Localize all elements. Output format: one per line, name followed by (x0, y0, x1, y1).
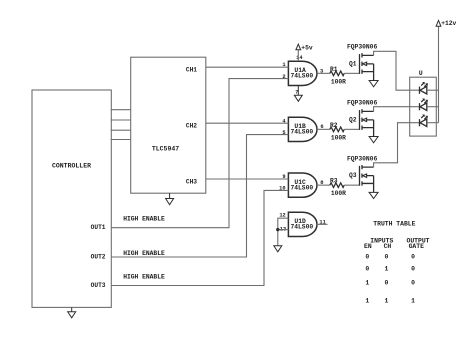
wire Q3 drain to LED row 3 (374, 123, 420, 168)
U1A pin14 stem wire (297, 50, 299, 61)
LED D3 (420, 115, 428, 127)
controller block (32, 90, 111, 307)
svg-text:TRUTH TABLE: TRUTH TABLE (373, 221, 415, 228)
svg-text:CH1: CH1 (186, 67, 197, 74)
svg-text:74LS00: 74LS00 (290, 224, 313, 231)
svg-text:1: 1 (365, 280, 369, 287)
svg-text:0: 0 (384, 254, 388, 261)
U1D output stub wire (317, 223, 328, 225)
svg-text:14: 14 (296, 55, 303, 61)
svg-text:R3: R3 (330, 178, 338, 185)
svg-text:FQP30N06: FQP30N06 (347, 100, 377, 107)
wire bus line 3 (111, 129, 131, 131)
svg-text:1: 1 (411, 297, 415, 304)
transistor Q1 FQP30N06 (360, 53, 374, 80)
transistor Q2 FQP30N06 (360, 109, 374, 136)
svg-text:0: 0 (411, 266, 415, 273)
wire bus line 1 (111, 109, 131, 111)
ground controller (68, 307, 76, 317)
svg-text:HIGH ENABLE: HIGH ENABLE (123, 216, 165, 223)
LED module U block (410, 77, 437, 136)
svg-text:OUT3: OUT3 (91, 282, 106, 289)
+5v supply arrow (296, 44, 301, 50)
wire CH2 to U1B pin4 (206, 122, 289, 124)
wire OUT3 to U1C pin10 (111, 190, 288, 285)
svg-text:R1: R1 (330, 66, 338, 73)
svg-text:0: 0 (411, 254, 415, 261)
nand gate U1C body (288, 173, 317, 197)
svg-text:HIGH ENABLE: HIGH ENABLE (123, 250, 165, 257)
svg-text:0: 0 (384, 280, 388, 287)
svg-text:R2: R2 (330, 122, 338, 129)
wire OUT2 to U1B pin5 (111, 135, 288, 257)
wire gate out to R3 (317, 184, 330, 186)
svg-text:Q2: Q2 (349, 116, 357, 123)
svg-text:CH3: CH3 (186, 178, 197, 185)
svg-text:+12v: +12v (441, 20, 456, 27)
wire R3 to Q3 gate (344, 184, 359, 186)
wire gate out to R1 (317, 72, 330, 74)
wire LED D3 anode to +12v rail (427, 122, 439, 124)
U1D junction dot (276, 228, 279, 231)
svg-text:5: 5 (282, 130, 285, 136)
svg-text:Q3: Q3 (349, 172, 357, 179)
wire CH3 to U1C pin9 (206, 178, 289, 180)
nand gate U1B body (288, 117, 317, 141)
wire R2 to Q2 gate (344, 128, 359, 130)
svg-text:OUT1: OUT1 (91, 224, 106, 231)
wire OUT1 to U1A pin2 (111, 79, 288, 228)
svg-text:1: 1 (384, 266, 388, 273)
transistor Q3 FQP30N06 (360, 165, 374, 192)
svg-text:0: 0 (411, 280, 415, 287)
svg-text:74LS00: 74LS00 (290, 129, 313, 136)
svg-text:100R: 100R (331, 134, 346, 141)
ground U1D inputs (274, 246, 282, 252)
svg-text:74LS00: 74LS00 (290, 73, 313, 80)
wire R1 to Q1 gate (344, 72, 359, 74)
svg-text:OUT2: OUT2 (91, 254, 106, 261)
resistor R3 (330, 183, 344, 188)
nand gate U1D body (288, 212, 317, 236)
svg-text:0: 0 (365, 266, 369, 273)
LED D1 (420, 82, 428, 94)
svg-text:FQP30N06: FQP30N06 (347, 44, 377, 51)
svg-text:100R: 100R (331, 78, 346, 85)
U1D input stubs and gnd wire (278, 218, 289, 246)
ground Q3 source (369, 192, 378, 198)
ground Q2 source (369, 137, 378, 143)
TLC5947 U2 block (131, 57, 206, 193)
ground Q1 source (369, 81, 378, 87)
wire Q1 drain to LED row 1 (374, 51, 420, 90)
svg-text:TLC5947: TLC5947 (152, 146, 179, 153)
svg-text:1: 1 (365, 297, 369, 304)
wire Q2 drain to LED row 2 (374, 107, 420, 112)
wire bus line 2 (111, 119, 131, 121)
wire bus line 4 (111, 139, 131, 141)
resistor R1 (330, 71, 344, 76)
svg-text:U: U (419, 70, 423, 77)
wire gate out to R2 (317, 128, 330, 130)
svg-text:100R: 100R (331, 190, 346, 197)
wire LED D2 anode to +12v rail (427, 106, 439, 108)
svg-text:2: 2 (282, 74, 285, 80)
nand gate U1A body (288, 61, 317, 85)
svg-text:FQP30N06: FQP30N06 (347, 155, 377, 162)
wire LED D1 anode to +12v rail (427, 89, 439, 91)
wire CH1 to U1A pin1 (206, 66, 289, 68)
svg-text:+5v: +5v (301, 44, 313, 51)
wire +12v rail (438, 26, 440, 123)
ground TLC5947 (166, 193, 174, 205)
svg-text:HIGH ENABLE: HIGH ENABLE (123, 274, 165, 281)
svg-text:Q1: Q1 (349, 60, 357, 67)
resistor R2 (330, 127, 344, 132)
svg-text:12: 12 (279, 213, 285, 219)
svg-text:CH: CH (384, 243, 392, 250)
+12v supply arrow (436, 20, 441, 26)
svg-text:0: 0 (365, 254, 369, 261)
svg-text:GATE: GATE (409, 243, 425, 250)
svg-text:CH2: CH2 (186, 123, 197, 130)
U1A pin7 gnd (294, 86, 302, 102)
svg-text:CONTROLLER: CONTROLLER (52, 162, 91, 169)
LED D2 (420, 99, 428, 111)
svg-text:EN: EN (364, 243, 372, 250)
svg-text:1: 1 (384, 297, 388, 304)
svg-text:74LS00: 74LS00 (290, 184, 313, 191)
